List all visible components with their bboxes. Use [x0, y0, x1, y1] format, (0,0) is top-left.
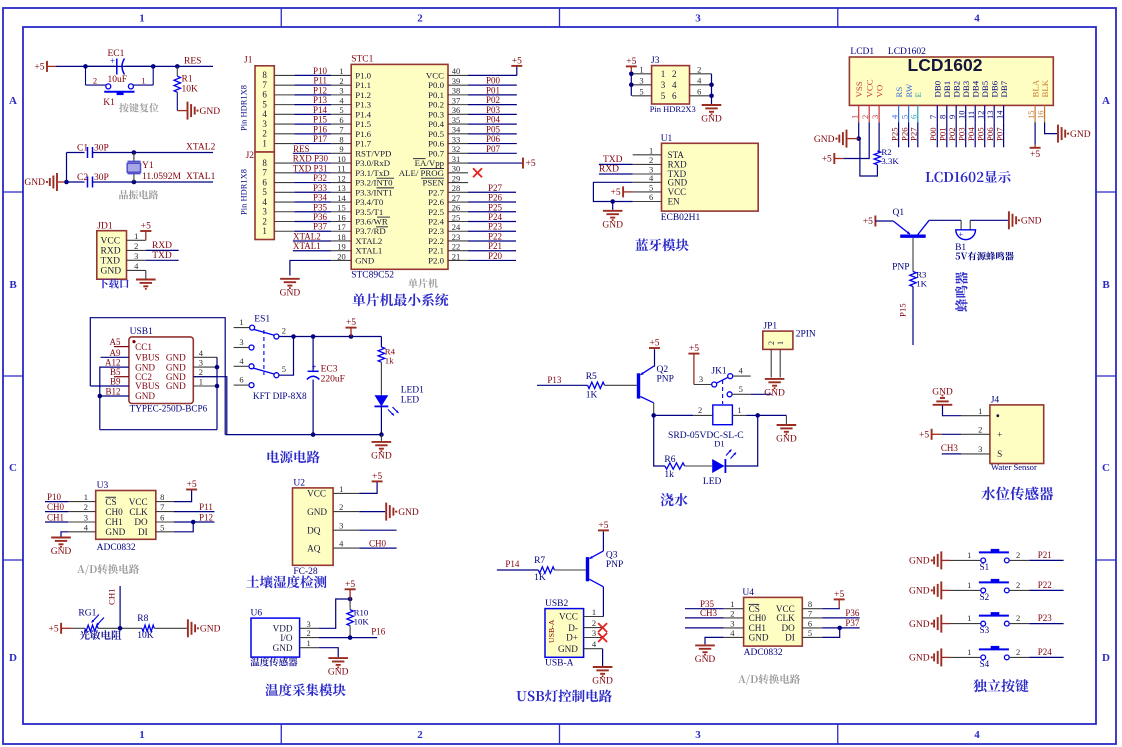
svg-text:RXD P30: RXD P30 [293, 154, 329, 164]
svg-text:P0.2: P0.2 [428, 100, 444, 110]
svg-text:1: 1 [306, 638, 310, 648]
svg-text:28: 28 [452, 183, 461, 193]
svg-text:P25: P25 [488, 202, 503, 212]
svg-text:1: 1 [134, 231, 138, 241]
svg-text:GND: GND [764, 389, 785, 399]
svg-text:Y1: Y1 [142, 161, 154, 171]
svg-text:1: 1 [639, 64, 643, 74]
svg-text:2: 2 [282, 326, 286, 336]
svg-text:GND: GND [932, 388, 953, 398]
svg-text:+5: +5 [526, 159, 536, 169]
svg-text:22: 22 [452, 242, 461, 252]
svg-text:11: 11 [337, 164, 345, 174]
svg-text:2: 2 [1016, 613, 1020, 623]
svg-text:P03: P03 [957, 127, 967, 141]
svg-text:12: 12 [337, 173, 346, 183]
svg-text:R6: R6 [664, 455, 675, 465]
svg-text:DI: DI [138, 527, 148, 537]
svg-text:+5: +5 [345, 580, 355, 590]
svg-text:P2.1: P2.1 [428, 246, 444, 256]
svg-text:16: 16 [1035, 111, 1045, 120]
svg-text:25: 25 [452, 212, 461, 222]
svg-text:P27: P27 [909, 127, 919, 141]
svg-text:P1.1: P1.1 [355, 80, 371, 90]
svg-text:EN: EN [668, 197, 680, 207]
svg-text:40: 40 [452, 66, 461, 76]
svg-text:GND: GND [749, 633, 769, 643]
svg-text:ECB02H1: ECB02H1 [661, 213, 701, 223]
svg-text:1: 1 [967, 613, 971, 623]
svg-text:4: 4 [262, 197, 267, 207]
svg-text:J3: J3 [651, 56, 660, 66]
svg-text:P01: P01 [486, 85, 500, 95]
svg-text:1: 1 [199, 377, 203, 387]
svg-text:2: 2 [84, 502, 88, 512]
svg-text:ADC0832: ADC0832 [744, 648, 783, 658]
svg-text:Q2: Q2 [657, 365, 669, 375]
svg-text:GND: GND [695, 655, 716, 665]
svg-text:Pin HDR1X8: Pin HDR1X8 [239, 169, 249, 215]
svg-text:15: 15 [1026, 111, 1036, 120]
svg-text:220uF: 220uF [321, 374, 345, 384]
svg-text:1k: 1k [664, 470, 674, 480]
svg-text:7: 7 [808, 608, 812, 618]
svg-text:P26: P26 [488, 193, 503, 203]
svg-text:3: 3 [339, 86, 343, 96]
svg-text:1: 1 [141, 76, 145, 86]
svg-text:TXD: TXD [152, 251, 172, 261]
svg-text:DQ: DQ [307, 525, 321, 535]
svg-text:P34: P34 [313, 193, 328, 203]
svg-text:10K: 10K [354, 617, 370, 627]
svg-text:D: D [9, 652, 17, 664]
svg-text:P0.5: P0.5 [428, 129, 444, 139]
svg-text:P07: P07 [486, 144, 501, 154]
svg-text:P10: P10 [47, 492, 62, 502]
svg-text:2: 2 [93, 76, 97, 86]
svg-text:P1.6: P1.6 [355, 129, 371, 139]
svg-text:P3.7/RD: P3.7/RD [355, 226, 386, 236]
svg-text:4: 4 [134, 261, 139, 271]
svg-text:11: 11 [966, 111, 976, 119]
svg-text:3: 3 [661, 80, 666, 90]
svg-text:GND: GND [909, 620, 930, 630]
svg-text:PNP: PNP [606, 560, 623, 570]
svg-text:B1: B1 [955, 243, 966, 253]
svg-text:4: 4 [649, 173, 654, 183]
svg-text:R5: R5 [586, 372, 597, 382]
svg-text:4: 4 [974, 13, 980, 25]
svg-text:GND: GND [51, 547, 72, 557]
svg-text:STC89C52: STC89C52 [351, 271, 394, 281]
svg-text:+5: +5 [48, 624, 58, 634]
svg-text:LED: LED [401, 396, 420, 406]
svg-text:P0.6: P0.6 [428, 139, 444, 149]
svg-text:D-: D- [568, 623, 578, 633]
svg-text:P2.2: P2.2 [428, 236, 444, 246]
svg-text:2: 2 [262, 129, 267, 139]
svg-text:RST/VPD: RST/VPD [355, 148, 391, 158]
svg-text:2: 2 [730, 608, 734, 618]
svg-text:GND: GND [355, 255, 374, 265]
svg-text:EA/Vpp: EA/Vpp [415, 158, 445, 168]
svg-text:1: 1 [339, 66, 343, 76]
svg-text:PSEN: PSEN [422, 178, 444, 188]
svg-text:USB-A: USB-A [547, 619, 556, 643]
svg-text:RXD: RXD [152, 241, 172, 251]
svg-text:14: 14 [337, 193, 346, 203]
svg-text:5: 5 [262, 187, 267, 197]
svg-text:1: 1 [967, 550, 971, 560]
svg-text:+5: +5 [1030, 150, 1040, 160]
svg-text:P35: P35 [313, 202, 328, 212]
svg-text:6: 6 [262, 177, 267, 187]
svg-text:29: 29 [452, 173, 461, 183]
svg-text:+5: +5 [822, 155, 832, 165]
svg-text:5: 5 [160, 522, 164, 532]
svg-text:3: 3 [239, 337, 243, 347]
svg-text:1K: 1K [916, 279, 927, 289]
svg-text:D: D [1102, 652, 1110, 664]
svg-text:21: 21 [452, 251, 461, 261]
svg-text:RXD: RXD [101, 246, 121, 256]
svg-text:B12: B12 [105, 387, 120, 397]
svg-text:VCC: VCC [426, 70, 444, 80]
svg-text:GND: GND [668, 177, 688, 187]
svg-text:4: 4 [672, 80, 677, 90]
svg-text:GND: GND [1070, 130, 1091, 140]
svg-text:3: 3 [199, 358, 203, 368]
svg-text:VCC: VCC [101, 236, 121, 246]
svg-text:5: 5 [808, 628, 812, 638]
svg-text:3: 3 [84, 513, 88, 523]
svg-text:+5: +5 [689, 344, 699, 354]
svg-text:1k: 1k [385, 356, 394, 366]
svg-text:30P: 30P [94, 144, 109, 154]
svg-text:GND: GND [200, 107, 221, 117]
svg-text:USB1: USB1 [130, 327, 153, 337]
svg-text:CH0: CH0 [369, 539, 387, 549]
svg-text:2: 2 [592, 618, 596, 628]
svg-text:P36: P36 [845, 608, 860, 618]
svg-text:P36: P36 [313, 212, 328, 222]
svg-text:VCC: VCC [864, 79, 874, 97]
svg-text:2: 2 [262, 216, 267, 226]
svg-text:U4: U4 [742, 588, 754, 598]
svg-text:R7: R7 [534, 556, 545, 566]
svg-text:4: 4 [739, 366, 744, 376]
svg-text:K1: K1 [103, 98, 115, 108]
svg-text:36: 36 [452, 105, 461, 115]
svg-text:VBUS: VBUS [135, 381, 160, 391]
svg-text:TXD: TXD [603, 155, 623, 165]
svg-text:24: 24 [452, 222, 461, 232]
svg-text:P3.1/TxD: P3.1/TxD [355, 168, 389, 178]
svg-text:9: 9 [947, 115, 957, 119]
svg-text:P15: P15 [313, 115, 328, 125]
svg-text:19: 19 [337, 242, 346, 252]
svg-text:6: 6 [649, 192, 653, 202]
svg-text:8: 8 [262, 70, 267, 80]
svg-text:6: 6 [909, 115, 919, 119]
svg-text:2: 2 [697, 64, 701, 74]
svg-text:2: 2 [978, 425, 982, 435]
svg-text:3: 3 [978, 444, 982, 454]
svg-text:XTAL2: XTAL2 [293, 231, 321, 241]
svg-text:6: 6 [160, 513, 164, 523]
svg-text:P00: P00 [486, 76, 501, 86]
svg-text:CH0: CH0 [105, 507, 123, 517]
svg-text:+: + [959, 230, 964, 239]
svg-text:1K: 1K [534, 573, 546, 583]
svg-text:2: 2 [134, 241, 138, 251]
svg-text:39: 39 [452, 76, 461, 86]
svg-text:PNP: PNP [892, 263, 909, 273]
svg-text:4: 4 [697, 75, 702, 85]
svg-text:P3.4/T0: P3.4/T0 [355, 197, 384, 207]
svg-text:JD1: JD1 [97, 222, 113, 232]
svg-text:P20: P20 [488, 251, 503, 261]
svg-text:S: S [997, 449, 1002, 459]
svg-text:LCD1: LCD1 [850, 47, 874, 57]
svg-text:J1: J1 [244, 56, 253, 66]
svg-text:P1.4: P1.4 [355, 109, 371, 119]
svg-text:P11: P11 [313, 76, 327, 86]
svg-text:P37: P37 [313, 222, 328, 232]
svg-text:P1.0: P1.0 [355, 70, 371, 80]
svg-text:6: 6 [808, 618, 812, 628]
svg-text:13: 13 [337, 183, 346, 193]
svg-text:E: E [913, 92, 923, 97]
svg-text:1: 1 [139, 13, 145, 25]
svg-text:P25: P25 [889, 127, 899, 141]
svg-text:PNP: PNP [657, 375, 674, 385]
svg-text:2: 2 [1016, 647, 1020, 657]
svg-text:+5: +5 [649, 339, 659, 349]
svg-text:GND: GND [200, 625, 221, 635]
svg-text:C: C [1102, 462, 1110, 474]
svg-text:KFT DIP-8X8: KFT DIP-8X8 [253, 392, 307, 402]
svg-text:P3.2/INT0: P3.2/INT0 [355, 178, 393, 188]
svg-text:14: 14 [994, 110, 1004, 119]
svg-text:J2: J2 [246, 151, 255, 161]
svg-text:P10: P10 [313, 66, 328, 76]
svg-text:A: A [9, 95, 17, 107]
svg-text:RXD: RXD [668, 159, 688, 169]
svg-text:5: 5 [639, 86, 643, 96]
svg-text:VCC: VCC [668, 187, 687, 197]
svg-text:CH1: CH1 [107, 588, 117, 605]
svg-text:USB2: USB2 [545, 599, 568, 609]
svg-text:P0.7: P0.7 [428, 148, 444, 158]
svg-text:JK1: JK1 [711, 367, 727, 377]
svg-text:P0.0: P0.0 [428, 80, 444, 90]
svg-text:P2.7: P2.7 [428, 187, 444, 197]
svg-text:P3.5/T1: P3.5/T1 [355, 207, 383, 217]
svg-text:BLA: BLA [1030, 79, 1040, 97]
svg-text:P23: P23 [1038, 613, 1053, 623]
svg-text:1: 1 [649, 145, 653, 155]
svg-text:5: 5 [262, 99, 267, 109]
svg-text:RG1: RG1 [78, 609, 96, 619]
svg-text:GND: GND [592, 677, 613, 687]
svg-text:1: 1 [850, 115, 860, 119]
svg-text:DI: DI [785, 633, 795, 643]
svg-text:GND: GND [701, 115, 722, 125]
svg-text:AQ: AQ [307, 543, 321, 553]
svg-text:R1: R1 [182, 75, 193, 85]
svg-text:P05: P05 [976, 127, 986, 141]
svg-text:SRD-05VDC-SL-C: SRD-05VDC-SL-C [668, 430, 744, 441]
svg-text:P06: P06 [486, 134, 501, 144]
svg-text:I/O: I/O [280, 633, 293, 643]
svg-text:P21: P21 [488, 241, 502, 251]
svg-text:DB2: DB2 [951, 81, 961, 98]
svg-text:DB3: DB3 [961, 80, 971, 97]
svg-text:35: 35 [452, 115, 461, 125]
svg-text:XTAL2: XTAL2 [355, 236, 382, 246]
svg-text:EC1: EC1 [108, 49, 125, 59]
svg-text:S1: S1 [980, 562, 990, 572]
svg-text:P13: P13 [547, 375, 562, 385]
svg-text:C: C [9, 462, 17, 474]
svg-text:P02: P02 [947, 127, 957, 141]
svg-text:2: 2 [1016, 580, 1020, 590]
svg-text:7: 7 [160, 502, 164, 512]
svg-text:3: 3 [339, 521, 343, 531]
svg-text:15: 15 [337, 203, 346, 213]
svg-text:6: 6 [697, 86, 701, 96]
svg-text:30P: 30P [94, 173, 109, 183]
svg-text:GND: GND [135, 362, 155, 372]
svg-text:34: 34 [452, 125, 461, 135]
svg-text:32: 32 [452, 144, 461, 154]
svg-text:+5: +5 [626, 57, 636, 67]
svg-text:1: 1 [661, 69, 666, 79]
svg-text:1: 1 [592, 607, 596, 617]
svg-text:TYPEC-250D-BCP6: TYPEC-250D-BCP6 [130, 404, 208, 414]
svg-text:P15: P15 [898, 303, 908, 317]
svg-text:+5: +5 [372, 472, 382, 482]
svg-text:+5: +5 [187, 480, 197, 490]
svg-text:P2.0: P2.0 [428, 255, 444, 265]
svg-text:2: 2 [339, 76, 343, 86]
svg-text:U1: U1 [661, 134, 673, 144]
svg-text:Pin HDR2X3: Pin HDR2X3 [650, 104, 696, 114]
svg-text:P02: P02 [486, 95, 500, 105]
svg-text:P11: P11 [199, 502, 213, 512]
svg-text:+: + [997, 430, 1002, 440]
svg-text:30: 30 [452, 164, 461, 174]
svg-text:XTAL1: XTAL1 [355, 246, 382, 256]
svg-text:8: 8 [339, 134, 343, 144]
svg-text:C1: C1 [77, 144, 88, 154]
svg-text:ALE/ PROG: ALE/ PROG [399, 168, 445, 178]
svg-text:P22: P22 [1038, 580, 1052, 590]
svg-text:R8: R8 [137, 614, 148, 624]
svg-text:P13: P13 [313, 95, 328, 105]
svg-text:RES: RES [184, 57, 201, 67]
svg-text:USB-A: USB-A [545, 659, 574, 669]
svg-text:CLK: CLK [129, 507, 148, 517]
svg-text:7: 7 [339, 125, 343, 135]
svg-text:1: 1 [737, 405, 741, 415]
svg-text:P2.5: P2.5 [428, 207, 444, 217]
svg-text:3: 3 [695, 729, 701, 741]
svg-text:GND: GND [1021, 217, 1042, 227]
svg-text:CLK: CLK [776, 613, 795, 623]
svg-text:DB4: DB4 [970, 80, 980, 97]
svg-text:P23: P23 [488, 222, 503, 232]
svg-text:P2.4: P2.4 [428, 217, 444, 227]
svg-text:31: 31 [452, 154, 461, 164]
svg-text:3: 3 [134, 251, 138, 261]
svg-text:GND: GND [909, 587, 930, 597]
svg-text:U6: U6 [251, 609, 263, 619]
svg-text:P24: P24 [1038, 647, 1053, 657]
svg-text:7: 7 [928, 115, 938, 119]
svg-text:A: A [1102, 95, 1110, 107]
svg-text:2: 2 [672, 69, 677, 79]
svg-text:U2: U2 [293, 479, 305, 489]
svg-text:GND: GND [398, 508, 419, 518]
svg-text:2: 2 [417, 729, 423, 741]
svg-text:GND: GND [328, 668, 349, 678]
svg-text:P12: P12 [199, 513, 213, 523]
svg-text:4: 4 [974, 729, 980, 741]
svg-text:P3.3/INT1: P3.3/INT1 [355, 187, 392, 197]
svg-text:4: 4 [730, 628, 735, 638]
svg-text:3: 3 [262, 119, 267, 129]
svg-text:P14: P14 [505, 559, 520, 569]
svg-text:P04: P04 [966, 127, 976, 141]
svg-text:38: 38 [452, 86, 461, 96]
svg-text:P17: P17 [313, 134, 328, 144]
svg-text:A9: A9 [110, 348, 121, 358]
svg-text:GND: GND [24, 178, 45, 188]
svg-text:2: 2 [306, 628, 310, 638]
svg-text:Pin HDR1X8: Pin HDR1X8 [239, 85, 249, 131]
svg-text:8: 8 [262, 158, 267, 168]
svg-text:CS: CS [105, 497, 116, 507]
svg-text:P04: P04 [486, 115, 501, 125]
svg-text:D+: D+ [566, 633, 578, 643]
svg-text:EC3: EC3 [321, 365, 338, 375]
svg-text:8: 8 [160, 492, 164, 502]
svg-text:6: 6 [672, 91, 677, 101]
svg-text:P12: P12 [313, 85, 327, 95]
svg-text:BLK: BLK [1040, 79, 1050, 97]
svg-text:P03: P03 [486, 105, 501, 115]
svg-text:GND: GND [602, 220, 623, 230]
svg-text:XTAL2: XTAL2 [186, 143, 216, 153]
svg-text:+5: +5 [141, 222, 151, 232]
svg-text:2: 2 [649, 155, 653, 165]
svg-text:P07: P07 [994, 127, 1004, 141]
svg-text:LCD1602: LCD1602 [908, 55, 983, 75]
svg-text:P24: P24 [488, 212, 503, 222]
svg-text:XTAL1: XTAL1 [186, 172, 216, 182]
svg-text:LED: LED [703, 477, 722, 487]
svg-text:P33: P33 [313, 183, 328, 193]
svg-text:1: 1 [262, 138, 267, 148]
svg-text:26: 26 [452, 203, 461, 213]
svg-text:GND: GND [814, 135, 835, 145]
svg-text:3: 3 [592, 628, 596, 638]
svg-text:+5: +5 [610, 188, 620, 198]
svg-text:GND: GND [101, 266, 122, 276]
svg-text:P22: P22 [488, 231, 502, 241]
